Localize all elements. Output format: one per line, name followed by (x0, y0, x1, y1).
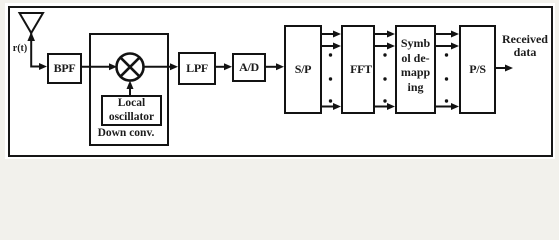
bus S/P to FFT (322, 31, 341, 111)
ADC A/D (232, 53, 266, 82)
output arrowhead (505, 65, 513, 72)
arrowhead into mixer bottom (127, 81, 134, 90)
arrowhead into S/P (276, 63, 284, 70)
label Down conv. (94, 127, 158, 139)
antenna feed arrowhead (27, 32, 35, 41)
wire P/S to output (496, 67, 507, 69)
filter LPF (178, 52, 216, 85)
antenna (20, 13, 44, 33)
block FFT (341, 25, 375, 114)
block symbol demapper (395, 25, 436, 114)
wire antenna to BPF (31, 33, 41, 67)
arrowhead into mixer (109, 63, 117, 70)
wire LPF to A/D (216, 66, 226, 68)
down converter block (89, 33, 169, 146)
label r(t) (9, 43, 31, 54)
bus FFT to symbol demapper (375, 31, 395, 111)
wire mixer to LPF (143, 66, 172, 68)
arrowhead into LPF (170, 63, 178, 70)
wire BPF to mixer (82, 66, 110, 68)
arrowhead into A/D (224, 63, 232, 70)
wire local oscillator to mixer (129, 87, 131, 96)
local oscillator (101, 95, 162, 126)
mixer circle with X (117, 54, 144, 81)
label Received data (498, 33, 552, 59)
bus symbol demapper to P/S (436, 31, 459, 111)
block P/S (459, 25, 496, 114)
wire A/D to S/P (266, 66, 278, 68)
block S/P (284, 25, 322, 114)
arrowhead into BPF (39, 63, 47, 70)
filter BPF (47, 53, 82, 84)
